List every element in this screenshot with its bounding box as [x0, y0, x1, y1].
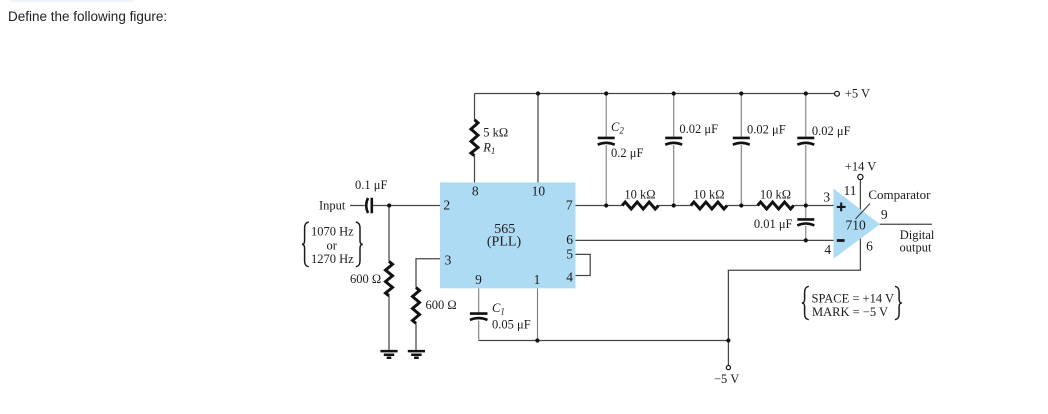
svg-text:0.05 μF: 0.05 μF [492, 318, 531, 332]
resistor 10k #1 [622, 202, 658, 209]
comparator pointer line [856, 204, 871, 220]
svg-text:1070 Hz: 1070 Hz [311, 224, 354, 238]
wire cap4 riser [805, 94, 807, 206]
svg-text:+14 V: +14 V [845, 160, 876, 174]
ground symbol #1 [380, 351, 397, 358]
ground symbol #2 [408, 351, 425, 358]
svg-text:0.1 μF: 0.1 μF [355, 178, 387, 192]
svg-text:7: 7 [566, 197, 573, 212]
wire comparator pin6 return [728, 239, 860, 341]
svg-text:10 kΩ: 10 kΩ [693, 188, 724, 202]
wire pin11 riser [859, 180, 861, 210]
svg-text:9: 9 [475, 272, 482, 287]
op-amp U1 comparator 710 triangle [834, 189, 880, 259]
comparator minus sign [837, 239, 845, 242]
svg-text:710: 710 [846, 218, 867, 233]
capacitor 0.02uF #3 plates [797, 138, 814, 145]
terminal -5V [726, 366, 730, 370]
wire top +5V rail [475, 93, 835, 95]
wire pin3 to 600ohm [416, 259, 440, 350]
wire cap3 riser [740, 94, 742, 206]
node pin7-cap2 [672, 203, 676, 207]
svg-text:4: 4 [824, 242, 831, 257]
wire pin8 riser [474, 94, 476, 183]
svg-text:10 kΩ: 10 kΩ [760, 188, 791, 202]
capacitor 0.02uF #2 plates [733, 138, 750, 145]
node rail-cap2 [672, 91, 676, 95]
svg-text:0.2 μF: 0.2 μF [611, 146, 643, 160]
node rail-pin10 [536, 91, 540, 95]
capacitor C2 plates [598, 138, 615, 145]
capacitor 0.01uF plates [797, 219, 814, 225]
brace right input [356, 222, 363, 267]
title [8, 9, 167, 24]
resistor 10k #3 [758, 202, 794, 209]
terminal +14V [858, 174, 863, 179]
node pin7-C2 [604, 203, 608, 207]
wire -5V stub [727, 341, 729, 366]
svg-text:9: 9 [881, 207, 888, 222]
svg-text:−5 V: −5 V [714, 372, 739, 386]
svg-text:4: 4 [566, 270, 573, 285]
resistor R1 5k [471, 120, 478, 156]
brace left space/mark [802, 286, 809, 319]
svg-text:1: 1 [534, 272, 541, 287]
resistor 600ohm #1 [386, 261, 393, 295]
wire bottom rail [479, 340, 729, 342]
node pin7-cap3 [739, 203, 743, 207]
svg-text:600 Ω: 600 Ω [426, 298, 457, 312]
node pin3-comp [804, 203, 808, 207]
wire input to cap [350, 205, 365, 207]
svg-text:0.01 μF: 0.01 μF [754, 217, 793, 231]
svg-text:+5 V: +5 V [845, 86, 870, 100]
wire pin9 drop [478, 288, 480, 340]
svg-text:MARK = −5 V: MARK = −5 V [812, 305, 888, 319]
svg-text:3: 3 [823, 189, 830, 204]
svg-text:10: 10 [532, 184, 546, 199]
svg-text:6: 6 [866, 239, 873, 254]
svg-text:0.02 μF: 0.02 μF [747, 123, 786, 137]
svg-text:5: 5 [566, 246, 573, 261]
terminal +5V [835, 91, 840, 96]
svg-text:11: 11 [844, 183, 857, 198]
node bottom-right [726, 338, 730, 342]
svg-text:8: 8 [472, 184, 479, 199]
svg-text:3: 3 [445, 252, 452, 267]
node bottom-pin1 [535, 338, 539, 342]
capacitor C1 plates [470, 314, 488, 320]
565 PLL box [440, 182, 576, 288]
svg-text:0.02 μF: 0.02 μF [812, 124, 851, 138]
wire pin6 row [576, 239, 834, 241]
brace right space/mark [895, 286, 902, 319]
wire output [880, 223, 932, 225]
svg-text:Input: Input [319, 199, 346, 213]
comparator plus sign [837, 203, 846, 212]
capacitor 0.02uF #1 plates [665, 138, 682, 145]
node rail-cap3 [739, 91, 743, 95]
svg-text:or: or [327, 238, 338, 252]
svg-text:output: output [900, 240, 932, 254]
capacitor 0.1uF input plates [366, 198, 372, 213]
resistor 600ohm #2 [413, 288, 420, 324]
junction dots [387, 91, 808, 342]
node pin6-cap [804, 238, 808, 242]
wire pin1 drop [537, 288, 539, 340]
wire C2 riser [605, 94, 607, 206]
svg-text:6: 6 [566, 232, 573, 247]
wire pin10 riser [537, 94, 539, 183]
node input junction [387, 203, 391, 207]
svg-text:(PLL): (PLL) [487, 234, 522, 249]
wire input junction drop [388, 206, 390, 350]
svg-text:Comparator: Comparator [868, 187, 931, 202]
wire pin7 row [575, 205, 834, 207]
wire cap4 lower / 0.01uF branch [805, 206, 807, 241]
node rail-C2 [604, 91, 608, 95]
svg-text:1270 Hz: 1270 Hz [311, 252, 354, 266]
svg-text:600 Ω: 600 Ω [350, 272, 381, 286]
wire pin5-pin4 bracket [576, 254, 591, 275]
wire cap to pin2 [373, 205, 440, 207]
svg-text:C1: C1 [492, 301, 505, 317]
svg-text:C2: C2 [611, 120, 624, 136]
svg-text:R1: R1 [482, 140, 495, 156]
wire cap2 riser [673, 94, 675, 206]
node rail-cap4 [804, 91, 808, 95]
brace left input [302, 222, 309, 267]
svg-text:2: 2 [443, 197, 450, 212]
svg-text:0.02 μF: 0.02 μF [679, 122, 718, 136]
faint cropped text at very top [11, 0, 133, 2]
svg-text:5 kΩ: 5 kΩ [483, 125, 508, 139]
svg-text:SPACE = +14 V: SPACE = +14 V [812, 291, 895, 305]
resistor 10k #2 [691, 202, 727, 209]
svg-text:10 kΩ: 10 kΩ [624, 188, 655, 202]
